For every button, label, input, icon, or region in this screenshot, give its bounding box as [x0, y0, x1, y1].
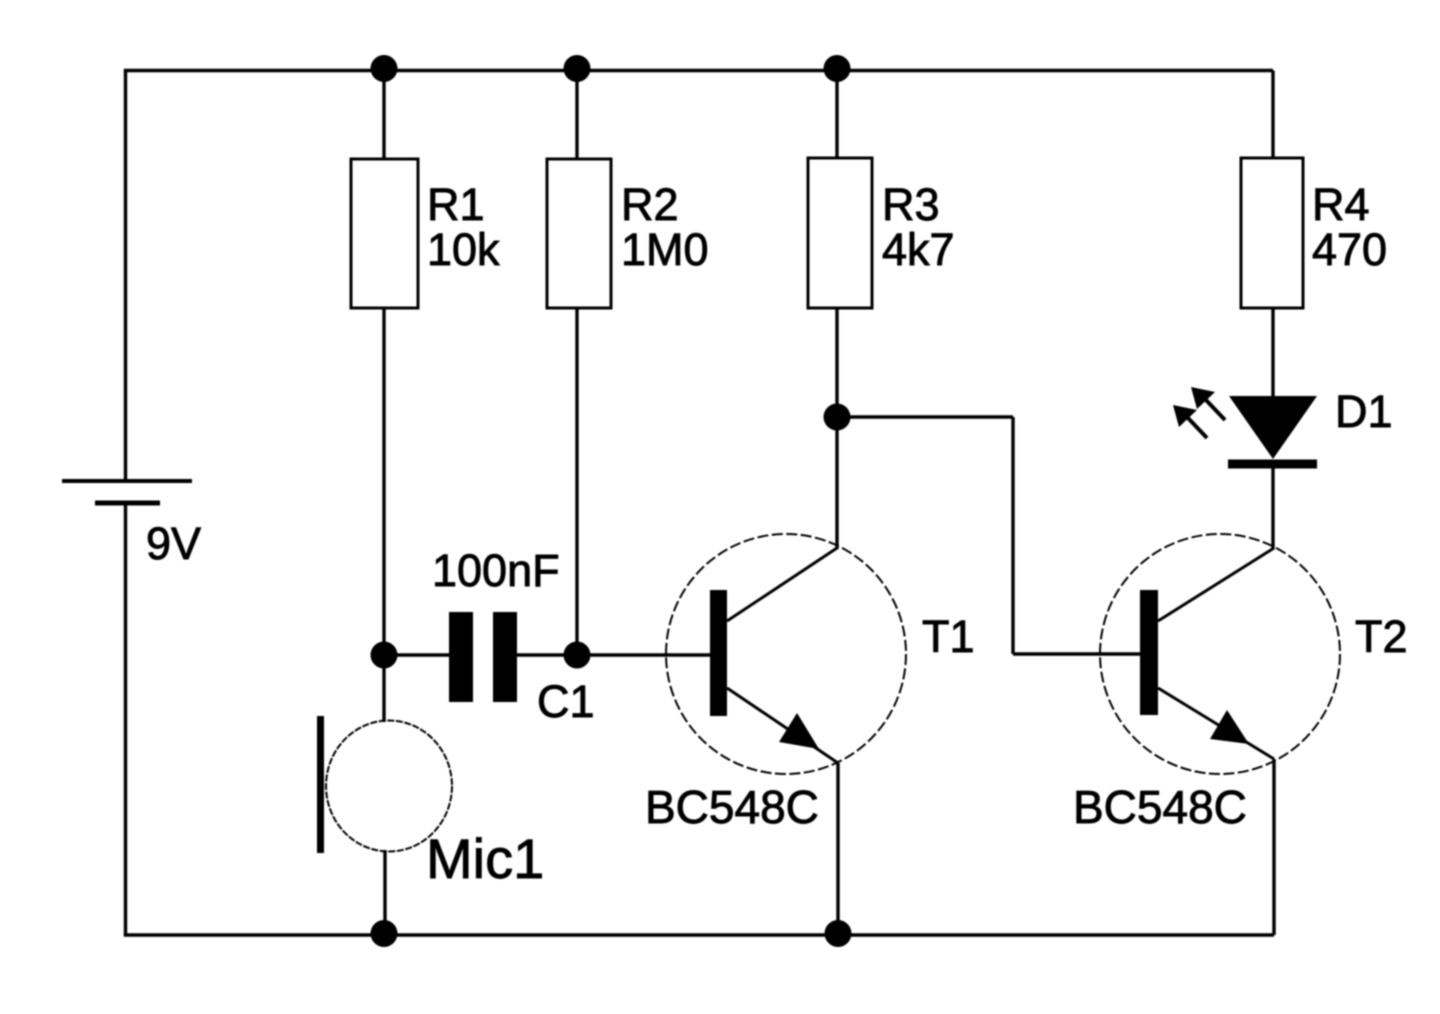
junction R3 collector node [824, 404, 851, 431]
svg-text:R2: R2 [621, 179, 679, 230]
LED D1 [1173, 387, 1317, 464]
resistor R1 [351, 159, 418, 308]
resistor R4 [1241, 158, 1303, 308]
wire mic bottom [383, 850, 386, 935]
wire R2 top [575, 71, 578, 160]
wire mic top [382, 655, 385, 722]
label R3 4k7 [882, 179, 955, 275]
svg-text:D1: D1 [1335, 386, 1393, 437]
wire left rail lower [124, 503, 127, 935]
wire T2 base [1013, 652, 1140, 655]
capacitor C1 [449, 612, 517, 702]
junction top rail R3 [824, 55, 851, 82]
junction bottom rail T1 emitter [825, 920, 852, 947]
wire top rail [124, 69, 1273, 72]
transistor T2 [1100, 534, 1340, 774]
wire left rail upper [124, 71, 127, 482]
junction top rail R2 [564, 55, 591, 82]
battery BT1 [62, 481, 192, 503]
svg-text:C1: C1 [537, 676, 595, 727]
wire D1 to T2 collector [1271, 468, 1274, 549]
svg-text:R1: R1 [427, 179, 485, 230]
wire bottom rail [124, 933, 1274, 936]
svg-text:BC548C: BC548C [645, 781, 819, 833]
wire collector node vertical [1011, 417, 1014, 654]
wire R1 bottom [382, 308, 385, 655]
transistor T1 [666, 534, 906, 774]
svg-text:4k7: 4k7 [882, 224, 955, 275]
svg-text:10k: 10k [427, 224, 500, 275]
junction top rail R1 [371, 55, 398, 82]
junction C1 base node [564, 642, 591, 669]
wire collector node horizontal [837, 415, 1013, 418]
svg-text:BC548C: BC548C [1073, 781, 1247, 833]
resistor R2 [547, 159, 611, 308]
label R2 1M0 [621, 179, 709, 275]
resistor R3 [808, 158, 872, 308]
junction mic C1 [371, 642, 398, 669]
svg-text:9V: 9V [146, 518, 201, 569]
wire R2 bottom [575, 308, 578, 655]
wire R1 top [382, 71, 385, 160]
svg-text:T2: T2 [1355, 611, 1408, 662]
wire R4 top [1271, 71, 1274, 159]
microphone Mic1 [317, 716, 452, 853]
wire C1 to T1 base node [517, 653, 577, 656]
label R1 10k [427, 179, 500, 275]
svg-text:T1: T1 [922, 611, 975, 662]
svg-text:100nF: 100nF [432, 545, 560, 596]
wire T2 emitter [1272, 759, 1275, 935]
svg-text:1M0: 1M0 [621, 224, 709, 275]
wire R3 top [835, 71, 838, 159]
svg-text:R3: R3 [882, 179, 940, 230]
svg-text:470: 470 [1312, 224, 1387, 275]
wire mic junction to C1 [384, 653, 449, 656]
wire R4 to D1 [1271, 308, 1274, 396]
wire T1 emitter [836, 763, 839, 935]
junction bottom rail mic [371, 920, 398, 947]
svg-text:Mic1: Mic1 [426, 827, 544, 890]
label R4 470 [1312, 179, 1387, 275]
wire R3 bottom [835, 308, 838, 549]
wire T1 base [577, 653, 710, 656]
svg-text:R4: R4 [1312, 179, 1370, 230]
